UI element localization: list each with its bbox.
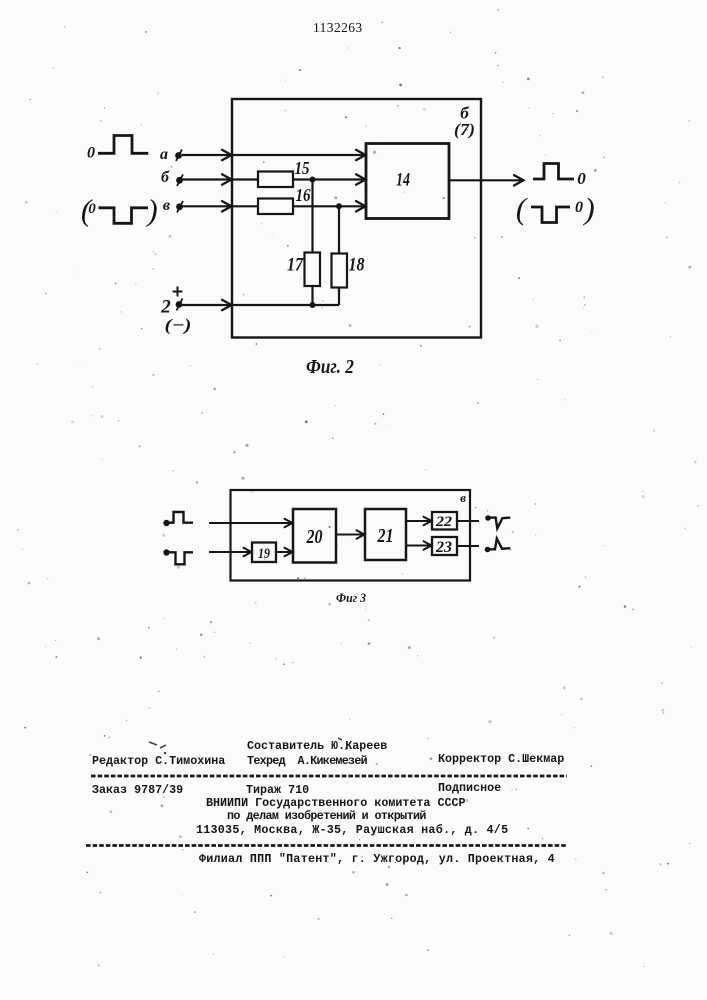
- svg-text:Фиг 3: Фиг 3: [336, 590, 366, 605]
- svg-text:(: (: [516, 191, 528, 226]
- svg-text:б: б: [161, 169, 170, 186]
- svg-text:22: 22: [435, 514, 453, 530]
- svg-text:20: 20: [306, 526, 323, 548]
- svg-text:(: (: [81, 193, 93, 228]
- svg-text:в: в: [460, 490, 466, 505]
- svg-text:0: 0: [577, 169, 586, 188]
- svg-text:14: 14: [396, 170, 410, 191]
- svg-text:0: 0: [87, 145, 95, 162]
- svg-text:a: a: [160, 146, 168, 163]
- svg-text:0: 0: [575, 199, 583, 216]
- svg-text:2: 2: [160, 297, 171, 318]
- svg-text:16: 16: [296, 185, 311, 205]
- svg-text:Фиг. 2: Фиг. 2: [306, 356, 354, 378]
- svg-text:(7): (7): [454, 120, 475, 139]
- svg-text:23: 23: [435, 539, 452, 556]
- svg-text:): ): [582, 191, 594, 226]
- svg-text:18: 18: [349, 255, 365, 276]
- svg-text:): ): [145, 193, 157, 228]
- svg-text:15: 15: [295, 158, 310, 178]
- svg-text:17: 17: [287, 255, 304, 276]
- svg-text:21: 21: [377, 525, 394, 547]
- svg-text:(−): (−): [165, 316, 192, 335]
- svg-text:в: в: [163, 197, 170, 214]
